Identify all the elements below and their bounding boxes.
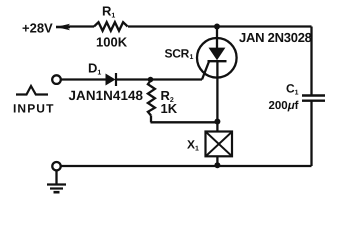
svg-text:INPUT: INPUT bbox=[13, 102, 55, 116]
svg-text:1K: 1K bbox=[161, 101, 178, 116]
svg-text:+28V: +28V bbox=[22, 21, 53, 36]
svg-text:JAN 2N3028: JAN 2N3028 bbox=[239, 30, 312, 45]
svg-text:JAN1N4148: JAN1N4148 bbox=[69, 88, 144, 103]
svg-text:200μf: 200μf bbox=[269, 100, 299, 112]
svg-text:100K: 100K bbox=[96, 35, 128, 50]
